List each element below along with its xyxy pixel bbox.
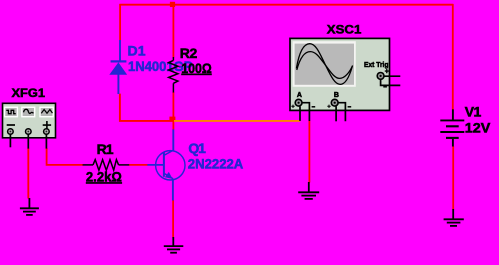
XFG1 button sine wave [21,107,35,118]
wire V1 bottom to ground [452,146,454,210]
XFG1 terminal minus [8,129,14,135]
battery V1 [440,109,464,146]
XSC1 channel B minus pin [338,103,345,122]
wire XFG1 common terminal to ground [27,148,29,199]
XFG1 pin stubs [10,134,46,148]
svg-text:XFG1: XFG1 [12,86,46,100]
wire scope A minus pin to ground [308,121,310,183]
wire top horizontal rail [119,4,453,6]
wire R2 bottom to junction [172,92,174,121]
XSC1 screen [295,44,354,85]
node junction mid wire / collector branch [169,117,175,122]
XSC1 ext trig plus pin [384,75,400,77]
XSC1 ext trig terminal [377,73,384,80]
transistor Q1 emitter arrow [165,172,173,179]
resistor R2 [169,57,178,93]
svg-text:R1: R1 [97,141,114,157]
XSC1 ext trig minus mark [383,86,387,88]
resistor R1 [83,160,130,171]
svg-text:R2: R2 [180,45,198,61]
XFG1 terminal plus [44,129,50,135]
XSC1 channel A minus pin [302,103,309,121]
XSC1 waveform large [296,44,352,85]
function generator XFG1 body [3,103,56,138]
XSC1 ext trig minus pin [381,80,401,86]
wire junction to Q1 collector [172,121,174,130]
wire R2 branch top (rail to R2) [172,4,174,58]
svg-text:A: A [297,92,302,99]
svg-text:XSC1: XSC1 [327,23,362,37]
node junction top rail / R2 branch [170,2,175,7]
wire R1 right lead to Q1 base [129,164,148,166]
XSC1 channel A plus mark [291,105,294,108]
XSC1 channel A plus pin [299,106,301,121]
svg-text:Q1: Q1 [188,140,206,156]
diode D1 [110,40,126,94]
svg-text:12V: 12V [465,120,491,136]
svg-text:D1: D1 [128,43,146,59]
XFG1 minus mark [7,124,15,126]
XSC1 channel B plus mark [327,105,330,108]
XSC1 channel B minus mark [348,106,352,108]
XSC1 channel B terminal [331,99,338,106]
svg-text:B: B [334,92,339,99]
oscilloscope XSC1 body [290,38,390,110]
XSC1 channel A minus mark [312,106,316,108]
transistor Q1 [147,129,185,200]
XSC1 channel B plus pin [335,106,337,121]
svg-text:2N2222A: 2N2222A [188,156,244,171]
XFG1 button square wave [4,107,18,118]
XFG1 terminal common [26,129,32,135]
ground (Q1 emitter) [164,237,184,253]
ground (scope A minus) [298,182,319,199]
svg-text:+: + [385,69,389,76]
svg-text:V1: V1 [465,104,482,120]
XSC1 waveform small [297,52,353,79]
wire Q1 emitter to ground [172,200,174,238]
XFG1 plus mark [43,121,51,129]
XSC1 channel A terminal [295,99,302,106]
wire right vertical (top rail to V1) [452,4,454,110]
wire XFG1 plus terminal to R1 [47,148,83,165]
wire orange mid horizontal (junction to scope A) [174,120,300,122]
XFG1 button triangle wave [39,107,54,118]
XSC1 screen frame [293,41,356,87]
wire left vertical (top rail to D1 anode) [119,4,121,40]
ground (XFG1 common) [20,198,39,215]
ground (battery V1) [444,209,464,226]
wire D1 bottom to corner to junction [120,94,174,121]
